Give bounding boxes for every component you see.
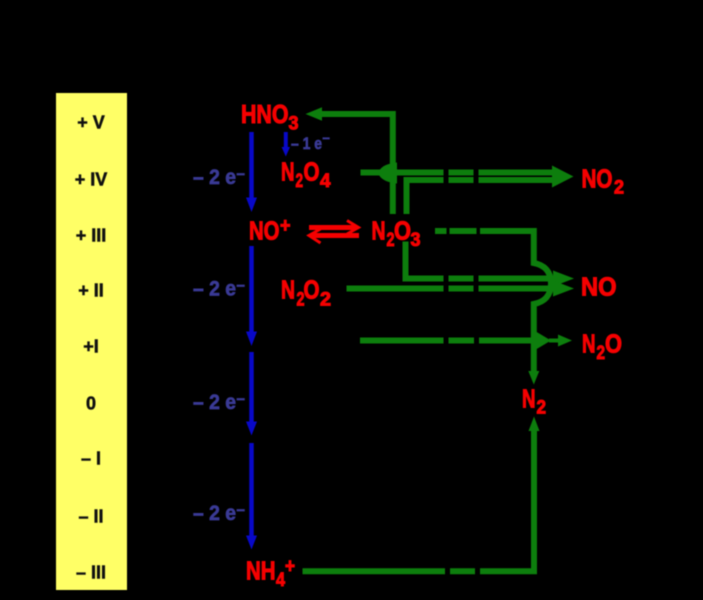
blue reduction arrow HNO3 to NO+: [246, 132, 257, 212]
svg-text:2: 2: [614, 178, 624, 199]
svg-text:–: –: [323, 130, 330, 145]
green arrowhead into NO (lower): [553, 281, 574, 297]
blue arrow NO+ down (to +I): [246, 246, 257, 346]
green arrowhead into NO (upper): [553, 271, 574, 287]
svg-text:0: 0: [86, 394, 96, 414]
green wire N2O3 down to NO row: [406, 242, 553, 279]
svg-text:N: N: [582, 329, 596, 359]
species N2O: [582, 329, 622, 365]
svg-text:NH: NH: [246, 556, 276, 586]
svg-text:2: 2: [537, 398, 547, 419]
svg-text:HNO: HNO: [241, 99, 289, 129]
label -2e (4): [193, 501, 245, 525]
svg-text:+ V: + V: [77, 113, 105, 133]
svg-text:– 2 e: – 2 e: [193, 166, 236, 189]
svg-text:2: 2: [296, 171, 304, 192]
svg-text:O: O: [394, 216, 411, 246]
svg-text:O: O: [605, 329, 622, 359]
green arrowhead into NO2: [552, 166, 574, 188]
red equilibrium arrow NO+ / N2O3 top: [309, 221, 359, 235]
svg-text:N: N: [281, 275, 295, 305]
svg-text:4: 4: [276, 570, 285, 591]
green arrow NO2 to N2O4 (upper wire): [361, 163, 557, 184]
svg-text:+ IV: + IV: [75, 170, 108, 190]
green arrow tip into N2O: [549, 335, 572, 347]
blue arrow down (to -I): [246, 352, 257, 436]
svg-text:2: 2: [320, 290, 331, 311]
species NO2: [582, 164, 625, 199]
species N2: [522, 384, 546, 419]
species NO: [581, 272, 617, 302]
label -2e (1): [193, 165, 245, 189]
svg-text:+: +: [285, 556, 295, 578]
label -2e (2): [193, 277, 245, 301]
oxidation state scale (yellow box): [56, 93, 127, 590]
svg-text:–: –: [237, 165, 245, 182]
svg-text:– 2 e: – 2 e: [193, 278, 236, 301]
label -2e (3): [193, 390, 245, 414]
species N2O2: [281, 275, 331, 311]
green wire N2O2 to NO (lower): [347, 286, 553, 292]
svg-text:4: 4: [320, 171, 331, 192]
svg-text:–: –: [237, 501, 245, 518]
svg-text:–: –: [237, 277, 245, 294]
svg-text:+: +: [280, 215, 291, 237]
svg-text:NO: NO: [582, 164, 613, 194]
species NO+: [249, 215, 291, 246]
green arrow to HNO3 (wire from NO2 junction): [306, 107, 393, 214]
green wire to N2O: [360, 338, 535, 344]
svg-text:– 2 e: – 2 e: [193, 391, 236, 414]
green wire NH4+ to N2 (up arrow): [303, 417, 540, 572]
svg-text:O: O: [304, 157, 320, 187]
svg-text:N: N: [522, 384, 536, 414]
svg-text:+I: +I: [83, 337, 99, 357]
svg-text:– 2 e: – 2 e: [193, 502, 236, 525]
svg-text:+ III: + III: [76, 226, 107, 246]
species N2O4: [281, 157, 331, 193]
svg-text:–: –: [237, 390, 245, 407]
svg-text:NO: NO: [581, 272, 617, 302]
svg-text:N: N: [372, 216, 386, 246]
svg-text:3: 3: [411, 230, 421, 251]
svg-text:O: O: [304, 275, 320, 305]
species HNO3: [241, 99, 299, 135]
svg-text:NO: NO: [249, 216, 280, 246]
green dashed wire N2O3 to junction: [435, 231, 551, 372]
svg-text:3: 3: [289, 114, 299, 135]
species N2O3: [372, 216, 421, 252]
svg-text:2: 2: [597, 343, 606, 364]
species NH4+: [246, 556, 295, 592]
svg-text:N: N: [281, 157, 295, 187]
svg-text:– III: – III: [76, 563, 106, 583]
blue arrow HNO3 to N2O4 (-1e): [282, 132, 290, 157]
green arrowhead down into N2: [528, 371, 539, 385]
svg-text:+ II: + II: [78, 281, 104, 301]
svg-text:– I: – I: [81, 449, 101, 469]
svg-text:– 1 e: – 1 e: [291, 134, 322, 153]
green wire NO2 to N2O3 (lower): [407, 180, 557, 214]
svg-text:– II: – II: [78, 507, 103, 527]
red equilibrium arrow N2O3 / NO+ bottom: [309, 229, 359, 243]
label -1e: [291, 130, 330, 153]
blue arrow down to NH4+: [246, 443, 257, 550]
green big arrowhead at N2O junction: [535, 331, 551, 350]
